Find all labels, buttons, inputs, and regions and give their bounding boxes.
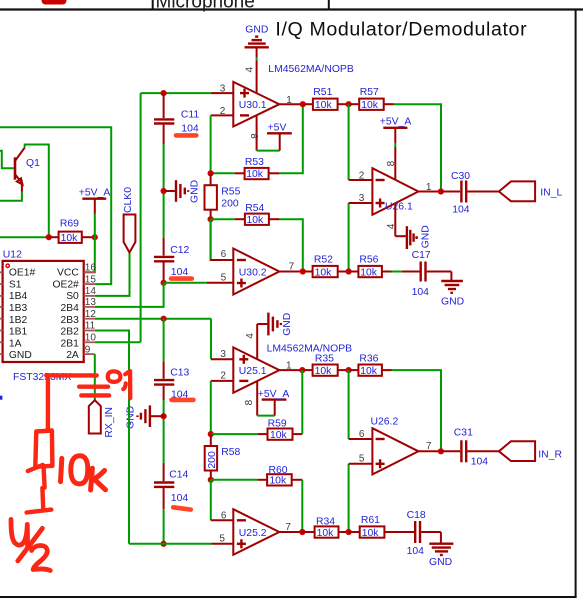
op-amp U30.2 <box>233 249 279 295</box>
wire C12 junction down to U12 pin13 row <box>95 283 164 307</box>
wire R51/R57 junction down to U26.1 pin2 <box>348 104 350 180</box>
resistor R69 <box>49 218 95 244</box>
ground symbol below C17 <box>441 272 464 308</box>
svg-text:CLK0: CLK0 <box>123 187 134 213</box>
svg-text:2B3: 2B3 <box>60 315 79 326</box>
svg-text:15: 15 <box>85 274 97 285</box>
U26.2 pin 5 stub <box>349 463 373 465</box>
node R69 right / +5V_A tap <box>92 234 98 240</box>
svg-text:8: 8 <box>250 133 261 139</box>
IC U12 body <box>3 249 84 383</box>
wire R60 right down to U25.2 output <box>301 480 303 532</box>
svg-text:C13: C13 <box>170 367 189 378</box>
svg-text:10k: 10k <box>270 430 288 441</box>
svg-text:1B1: 1B1 <box>9 327 28 338</box>
svg-text:U30.1: U30.1 <box>239 100 267 111</box>
red annotation text 10k <box>61 456 106 490</box>
U26.1 pin 1 output stub <box>418 191 441 193</box>
U25.1 pin 2 stub <box>211 380 234 382</box>
U26.1 pin 4 line <box>394 203 396 236</box>
U12 right pin numbers <box>85 263 97 356</box>
node U30.1 output junction <box>300 101 306 107</box>
U26.1 pin 2 stub <box>349 179 373 181</box>
op-amp U26.1 <box>372 168 418 215</box>
wire row12 down to C13 <box>163 319 165 362</box>
svg-text:10k: 10k <box>362 528 380 539</box>
svg-text:IN_L: IN_L <box>540 188 562 199</box>
wire U30.1 pin3 row <box>141 92 211 94</box>
svg-text:R36: R36 <box>359 353 378 364</box>
red annotation underline C11 104 <box>176 133 196 138</box>
resistor R51 <box>303 87 349 111</box>
node R59/R58 top junction <box>208 431 214 437</box>
U30.1 pin 8 line <box>256 116 258 151</box>
capacitor C17 <box>412 250 452 298</box>
svg-text:IN_R: IN_R <box>538 450 562 461</box>
svg-text:+5V_A: +5V_A <box>79 187 111 198</box>
port IN_R <box>499 441 563 461</box>
node R58 bottom <box>208 477 214 483</box>
svg-text:R69: R69 <box>60 218 79 229</box>
svg-text:4: 4 <box>244 67 255 73</box>
red annotation resistor sketch 10k <box>27 376 53 513</box>
svg-text:2: 2 <box>220 371 226 382</box>
svg-text:LM4562MA/NOPB: LM4562MA/NOPB <box>267 344 353 355</box>
table cell divider left <box>152 0 154 9</box>
svg-text:9: 9 <box>85 344 91 355</box>
op-amp U30.1 <box>233 82 279 127</box>
svg-text:U30.2: U30.2 <box>239 267 267 278</box>
wire Q1 collector to R69 node <box>25 145 49 238</box>
svg-text:R51: R51 <box>313 87 332 98</box>
svg-text:10k: 10k <box>360 267 378 278</box>
wire U12 pin12 row <box>95 318 211 320</box>
svg-text:S1: S1 <box>9 279 22 290</box>
U30.2 pin 5 stub <box>207 282 233 284</box>
svg-text:GND: GND <box>9 350 32 361</box>
svg-text:R55: R55 <box>221 186 240 197</box>
svg-text:5: 5 <box>221 272 227 283</box>
svg-text:GND: GND <box>441 297 464 308</box>
svg-text:104: 104 <box>171 493 189 504</box>
svg-text:U25.2: U25.2 <box>239 528 267 539</box>
svg-text:10k: 10k <box>317 528 335 539</box>
U25.2 pin 7 output stub <box>279 531 302 533</box>
wire C11 to C12 <box>163 144 165 238</box>
svg-text:RX_IN: RX_IN <box>104 407 115 438</box>
wire R55 bottom to U30.2 pin6 <box>211 219 234 260</box>
resistor R55 (vertical, 200) <box>205 173 241 219</box>
svg-text:10: 10 <box>85 333 97 344</box>
wire R59 right up to R35 row <box>301 370 303 434</box>
node U26.2 output junction <box>438 448 444 454</box>
U26.2 pin 6 stub <box>349 438 373 440</box>
svg-text:4: 4 <box>245 333 256 339</box>
svg-text:1: 1 <box>286 95 292 106</box>
svg-text:5: 5 <box>359 454 365 465</box>
svg-text:3: 3 <box>220 349 226 360</box>
svg-text:8: 8 <box>386 160 397 166</box>
node C11 top junction <box>161 90 167 96</box>
resistor R61 <box>349 515 414 539</box>
svg-text:13: 13 <box>85 297 97 308</box>
svg-text:104: 104 <box>407 546 425 557</box>
resistor R36 <box>349 353 392 377</box>
ground symbol below C18 <box>429 532 453 568</box>
transistor Q1 <box>15 148 40 192</box>
svg-text:5: 5 <box>219 534 225 545</box>
capacitor C13 <box>154 362 189 401</box>
ground symbol (right-pointing) at C11/C12 wire <box>164 180 201 203</box>
wire R57 to U26.1 output column <box>394 104 441 191</box>
U26.1 pin 3 stub <box>349 202 373 204</box>
op-amp U25.1 <box>233 347 279 392</box>
svg-text:10k: 10k <box>315 267 333 278</box>
node GND tap y416 <box>161 413 167 419</box>
svg-text:10k: 10k <box>269 476 287 487</box>
svg-text:1: 1 <box>426 182 432 193</box>
svg-text:6: 6 <box>221 249 227 260</box>
resistor R53 <box>211 157 280 180</box>
svg-text:104: 104 <box>452 205 470 216</box>
node R51/R57 junction <box>346 101 352 107</box>
node U30.2 output junction <box>300 268 306 274</box>
svg-text:11: 11 <box>85 321 96 332</box>
svg-text:S0: S0 <box>66 291 79 302</box>
wire U12 pin14 to CLK0 <box>95 253 130 296</box>
wire U12 pin10 to x140 column <box>95 341 141 343</box>
wire R56 to C17 <box>392 271 402 273</box>
wire U30.2 pin5 row <box>164 282 207 284</box>
svg-text:R58: R58 <box>221 447 240 458</box>
resistor R54 <box>211 203 280 226</box>
wire R35/R36 junction down to U26.2 pin6 <box>348 370 350 439</box>
port IN_L <box>499 181 563 201</box>
wire +5V_A node down to U12 pin16 <box>84 237 95 272</box>
U25.1 pin 1 output stub <box>279 369 302 371</box>
ground symbol (right-pointing) at U26.1 pin 4 <box>395 225 431 249</box>
power +5V_A above U26.1 <box>380 117 412 128</box>
U12 right pin names <box>52 268 79 362</box>
resistor R58 (vertical, 200) <box>205 434 241 480</box>
svg-text:R56: R56 <box>359 255 378 266</box>
svg-text:1B2: 1B2 <box>9 315 28 326</box>
wire R54 right down to U30.2 output <box>280 219 303 271</box>
wire vertical x140 (U12 pin10 to U30.1 pin3) <box>140 93 142 342</box>
node R52/R56 junction <box>346 268 352 274</box>
svg-text:10k: 10k <box>61 233 79 244</box>
svg-text:10k: 10k <box>360 366 378 377</box>
svg-text:OE1#: OE1# <box>9 268 36 279</box>
red annotation underline C14 104 <box>173 507 191 509</box>
U12 right pin stubs <box>84 272 95 354</box>
svg-text:104: 104 <box>412 287 430 298</box>
capacitor C11 <box>154 93 199 144</box>
wire U25.1 pin2 down to R59 node <box>210 381 212 434</box>
red annotation underline C13 104 <box>172 398 194 403</box>
resistor R57 <box>349 87 394 111</box>
wire R36 right down to U26.2 output <box>392 370 441 451</box>
svg-text:7: 7 <box>285 522 291 533</box>
node R34/R61 junction <box>346 529 352 535</box>
red annotation text U/2 <box>11 519 50 570</box>
svg-text:8: 8 <box>244 399 255 405</box>
U30.1 pin 2 stub <box>211 114 234 116</box>
svg-text:1B4: 1B4 <box>9 291 28 302</box>
U25.1 pin 8 line <box>256 381 258 416</box>
resistor R34 <box>302 517 348 539</box>
resistor R56 <box>349 255 392 279</box>
svg-text:1: 1 <box>286 360 292 371</box>
red annotation blob top-left (cut off) <box>42 0 67 5</box>
svg-text:6: 6 <box>359 429 365 440</box>
svg-text:Q1: Q1 <box>26 158 40 169</box>
U30.2 pin 7 output stub <box>279 271 303 273</box>
node R35/R36 junction <box>346 367 352 373</box>
wire C14 to U25.2 pin5 row <box>163 509 165 544</box>
ground symbol (right-pointing) at U25.1 pin 4 <box>257 313 293 336</box>
U25.1 pin 3 stub <box>211 358 233 360</box>
svg-text:10k: 10k <box>315 100 333 111</box>
svg-text:7: 7 <box>289 261 295 272</box>
power +5V_A above R69 <box>79 187 111 237</box>
capacitor C30 <box>441 171 499 216</box>
capacitor C31 <box>441 428 499 468</box>
svg-text:GND: GND <box>190 180 201 203</box>
U25.1 pin 4 line to GND <box>256 324 258 359</box>
port flag CLK0 <box>123 187 135 253</box>
node C14 bottom row <box>161 541 167 547</box>
svg-text:I/Q Modulator/Demodulator: I/Q Modulator/Demodulator <box>275 18 527 40</box>
svg-text:10k: 10k <box>246 169 264 180</box>
wire R58 bottom to U25.2 pin6 <box>210 480 212 521</box>
svg-text:3: 3 <box>220 84 226 95</box>
svg-text:200: 200 <box>221 198 239 209</box>
svg-text:R54: R54 <box>245 203 264 214</box>
power +5V_A at U25.1 pin 8 <box>257 389 289 416</box>
op-amp U25.2 <box>233 509 279 555</box>
net label fragment left edge <box>0 396 2 400</box>
node U25.1 output junction <box>299 367 305 373</box>
node R55 top <box>208 170 214 176</box>
U26.1 pin 8 line <box>394 128 396 144</box>
red annotation capacitor sketch near RX_IN <box>46 375 109 395</box>
svg-text:LM4562MA/NOPB: LM4562MA/NOPB <box>268 64 354 75</box>
svg-text:1B3: 1B3 <box>9 303 28 314</box>
svg-text:R60: R60 <box>269 465 288 476</box>
svg-text:U26.1: U26.1 <box>385 201 413 212</box>
svg-text:+5V_A: +5V_A <box>380 117 412 128</box>
svg-text:C11: C11 <box>181 109 200 120</box>
svg-text:3: 3 <box>359 193 365 204</box>
svg-text:14: 14 <box>85 286 97 297</box>
svg-text:U25.1: U25.1 <box>239 366 267 377</box>
ground symbol (left-pointing) at C13/C14 wire <box>125 405 163 429</box>
node GND tap at y191 <box>161 188 167 194</box>
svg-text:16: 16 <box>85 263 97 274</box>
svg-text:2: 2 <box>359 170 365 181</box>
node U26.1 output junction <box>438 188 444 194</box>
svg-text:GND: GND <box>125 406 136 429</box>
svg-text:2A: 2A <box>66 350 79 361</box>
capacitor C14 <box>154 463 188 509</box>
svg-text:GND: GND <box>420 225 431 248</box>
U26.2 pin 7 output stub <box>418 450 441 452</box>
svg-text:Microphone: Microphone <box>156 0 255 12</box>
svg-text:1A: 1A <box>9 338 22 349</box>
svg-text:2B2: 2B2 <box>60 327 79 338</box>
svg-text:7: 7 <box>426 441 432 452</box>
svg-text:4: 4 <box>386 223 397 229</box>
port flag RX_IN <box>89 400 115 437</box>
sheet border right <box>575 9 577 598</box>
wire U30.1 pin4 to GND <box>256 47 258 57</box>
svg-text:R35: R35 <box>315 353 334 364</box>
node U25.2 output junction <box>299 529 305 535</box>
svg-text:R59: R59 <box>268 419 287 430</box>
svg-text:GND: GND <box>429 557 452 568</box>
svg-text:C31: C31 <box>454 428 473 439</box>
svg-text:12: 12 <box>85 309 97 320</box>
op-amp U26.2 <box>371 417 419 475</box>
svg-text:C30: C30 <box>451 171 470 182</box>
svg-text:VCC: VCC <box>57 268 79 279</box>
svg-text:R53: R53 <box>245 157 264 168</box>
svg-text:C17: C17 <box>412 250 431 261</box>
svg-text:104: 104 <box>171 267 189 278</box>
red annotation text 0,1 <box>108 371 131 398</box>
svg-text:GND: GND <box>282 313 293 336</box>
table cell divider right <box>328 0 330 9</box>
resistor R59 <box>211 419 302 441</box>
red annotation underline C12 104 <box>171 276 192 281</box>
wire U26.2 pin5 down to R34/R61 junction <box>348 464 350 532</box>
node C12 bottom / U30.2 pin5 <box>161 280 167 286</box>
wire U26.1 pin3 down to R52/R56 junction <box>348 203 350 272</box>
wire left to R69 <box>0 236 49 238</box>
wire U12 pin11 down (to U25.2 pin5 row) <box>95 331 129 544</box>
wire R53 right up to output row <box>280 104 303 173</box>
wire U12 pin9 down to RX_IN <box>94 354 96 400</box>
svg-text:R57: R57 <box>360 87 379 98</box>
svg-text:GND: GND <box>245 24 268 35</box>
svg-text:+5V_A: +5V_A <box>258 389 290 400</box>
svg-text:2: 2 <box>220 106 226 117</box>
U25.2 pin 6 stub <box>211 519 234 521</box>
U12 left pin stubs (cut at edge) <box>0 272 3 354</box>
capacitor C12 <box>154 238 189 283</box>
power +5V at U30.1 pin 8 <box>257 122 292 150</box>
svg-text:R52: R52 <box>314 255 333 266</box>
wire top-left horizontal to U12 pin15 <box>0 127 111 284</box>
sheet border bottom <box>0 596 577 598</box>
svg-text:2B1: 2B1 <box>60 338 79 349</box>
U30.1 pin 3 stub <box>211 92 234 94</box>
svg-text:OE2#: OE2# <box>52 279 79 290</box>
svg-text:C12: C12 <box>170 245 189 256</box>
svg-text:10k: 10k <box>315 366 333 377</box>
svg-text:U26.2: U26.2 <box>371 417 399 428</box>
svg-text:C18: C18 <box>407 510 426 521</box>
svg-text:+5V: +5V <box>268 122 287 133</box>
svg-text:104: 104 <box>471 456 489 467</box>
svg-text:C14: C14 <box>169 469 188 480</box>
node R69 left <box>46 234 52 240</box>
wire Q1 base from left edge <box>0 151 14 168</box>
svg-text:200: 200 <box>207 451 218 469</box>
svg-text:6: 6 <box>221 510 227 521</box>
resistor R35 <box>302 353 348 377</box>
svg-text:10k: 10k <box>361 100 379 111</box>
resistor R60 <box>211 465 302 487</box>
svg-text:R61: R61 <box>361 515 380 526</box>
U30.1 pin 1 output stub <box>279 103 303 105</box>
svg-text:U12: U12 <box>3 249 22 260</box>
node row12 cap column <box>161 316 167 322</box>
wire Q1 emitter to left edge <box>0 192 22 201</box>
wire U30.1 pin2 down <box>210 115 212 173</box>
wire C13 to GND tap <box>163 400 165 463</box>
svg-text:R34: R34 <box>316 517 335 528</box>
resistor R52 <box>303 255 349 279</box>
svg-text:2B4: 2B4 <box>60 303 79 314</box>
capacitor C18 <box>407 510 441 557</box>
U12 left pin names <box>9 268 36 362</box>
svg-text:10k: 10k <box>247 215 265 226</box>
node R55 bottom <box>208 216 214 222</box>
svg-text:104: 104 <box>181 123 199 134</box>
wire U12 pin12 down to U25.1 pin3 <box>210 319 212 360</box>
sheet border top <box>0 8 583 10</box>
ground symbol top (inverted, above U30.1 pin 4) <box>245 24 269 47</box>
wire U25.2 pin5 row <box>129 543 212 545</box>
